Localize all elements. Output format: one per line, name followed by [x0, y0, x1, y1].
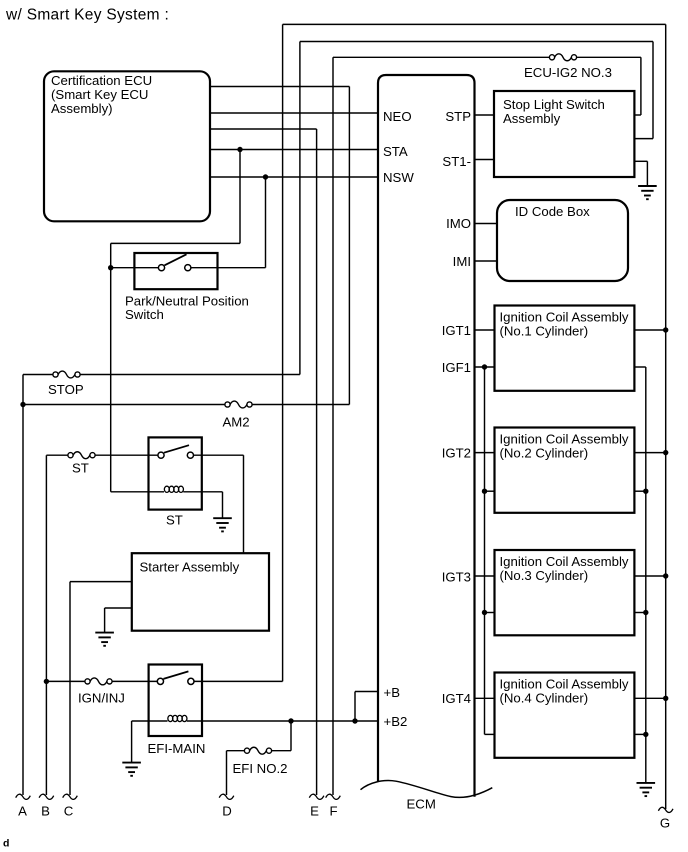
ignition coil assembly no.4 [495, 673, 635, 758]
connector C [63, 794, 78, 799]
wire IMO stub [475, 223, 498, 225]
svg-text:ST1-: ST1- [442, 154, 471, 169]
wire STOP riser to stop light switch feed [299, 42, 301, 375]
svg-text:Assembly: Assembly [503, 111, 561, 126]
connector E [309, 794, 324, 799]
wire ECU to NSW [210, 176, 378, 178]
ground stop light switch [634, 160, 647, 162]
svg-text:IGT3: IGT3 [442, 570, 471, 585]
ignition coil assembly no.2 [495, 428, 635, 513]
node coil2 ground rail [643, 489, 648, 494]
wire connector D riser with EFI NO.2 fuse [226, 751, 228, 795]
wire coil1 to +B rail [634, 329, 665, 331]
svg-text:Ignition Coil Assembly: Ignition Coil Assembly [500, 677, 629, 692]
ECM box with wavy bottom [378, 75, 475, 797]
svg-text:Ignition Coil Assembly: Ignition Coil Assembly [500, 432, 629, 447]
wire IGT2 stub [475, 452, 495, 454]
svg-text:EFI NO.2: EFI NO.2 [233, 761, 288, 776]
svg-text:IGT4: IGT4 [442, 691, 471, 706]
fuse STOP [53, 372, 58, 377]
svg-text:STA: STA [383, 144, 408, 159]
ignition coil assembly no.3 [495, 550, 635, 635]
svg-text:B: B [41, 803, 50, 818]
svg-text:Assembly): Assembly) [51, 101, 113, 116]
svg-text:C: C [64, 803, 74, 818]
node +B junction on +B2 line [352, 718, 357, 723]
connector F [326, 794, 341, 799]
node coil4 +B rail [663, 696, 668, 701]
relay ST [149, 437, 202, 509]
fuse EFI NO.2 [244, 748, 249, 753]
ground starter assembly [105, 607, 132, 609]
wire ST1- stub [475, 159, 495, 161]
ignition coil assembly no.1 [495, 306, 635, 391]
svg-text:Ignition Coil Assembly: Ignition Coil Assembly [500, 310, 629, 325]
wire connector C riser to starter [69, 582, 71, 795]
svg-text:ID Code Box: ID Code Box [515, 204, 590, 219]
stop light switch assembly box [494, 91, 634, 177]
svg-text:NEO: NEO [383, 109, 412, 124]
svg-text:F: F [329, 803, 337, 818]
svg-text:IMI: IMI [453, 254, 471, 269]
wire IGF rail to coil4 [485, 733, 495, 735]
node STA branch [237, 147, 242, 152]
connector A [16, 794, 31, 799]
svg-text:+B: +B [384, 685, 401, 700]
wire coil2 to +B rail [634, 452, 665, 454]
node A-AM2 junction [20, 402, 25, 407]
svg-text:(Smart Key ECU: (Smart Key ECU [51, 87, 148, 102]
svg-text:G: G [660, 816, 670, 831]
fuse AM2 [225, 402, 230, 407]
wire ECU to connector E riser [210, 128, 317, 130]
wire G rail down right side [665, 24, 667, 809]
svg-text:IMO: IMO [446, 216, 471, 231]
svg-text:d: d [3, 838, 9, 850]
node coil2 +B rail [663, 450, 668, 455]
svg-text:IGT2: IGT2 [442, 446, 471, 461]
svg-text:ECU-IG2 NO.3: ECU-IG2 NO.3 [524, 65, 612, 80]
svg-text:w/ Smart Key System :: w/ Smart Key System : [5, 7, 169, 24]
wire EFI-MAIN output riser to top rail [282, 24, 284, 681]
svg-text:(No.2 Cylinder): (No.2 Cylinder) [500, 446, 589, 461]
svg-text:(No.1 Cylinder): (No.1 Cylinder) [500, 324, 589, 339]
wire coil3 to +B rail [634, 575, 665, 577]
svg-text:IGF1: IGF1 [442, 360, 471, 375]
svg-text:STOP: STOP [48, 382, 84, 397]
node coil3 +B rail [663, 573, 668, 578]
svg-text:AM2: AM2 [223, 414, 250, 429]
svg-text:(No.3 Cylinder): (No.3 Cylinder) [500, 568, 589, 583]
ground rail for ignition coils [645, 367, 647, 783]
wire IMI stub [475, 260, 498, 262]
svg-text:ECM: ECM [407, 796, 436, 811]
svg-text:(No.4 Cylinder): (No.4 Cylinder) [500, 691, 589, 706]
ID code box [497, 200, 628, 281]
wire connector E riser lower part [316, 129, 318, 795]
ground ST relay [222, 492, 224, 518]
svg-text:A: A [18, 803, 27, 818]
relay EFI-MAIN [149, 665, 202, 737]
svg-text:ST: ST [166, 513, 183, 528]
wire IGT4 stub [475, 697, 495, 699]
wire ECU to STA [210, 149, 378, 151]
svg-text:Ignition Coil Assembly: Ignition Coil Assembly [500, 554, 629, 569]
connector B [39, 794, 54, 799]
svg-text:Stop Light Switch: Stop Light Switch [503, 97, 605, 112]
svg-text:ST: ST [72, 461, 89, 476]
certification ECU box [44, 71, 210, 221]
svg-text:IGT1: IGT1 [442, 323, 471, 338]
ground EFI-MAIN relay [131, 721, 133, 763]
wire +B bracket [355, 691, 378, 693]
svg-text:+B2: +B2 [384, 714, 408, 729]
wire STP stub [475, 114, 495, 116]
wire ECU to NEO [210, 112, 378, 114]
wire IGT1 stub [475, 329, 495, 331]
wire ECU pin1 to AM2 riser [210, 86, 349, 88]
park/neutral position switch [111, 267, 158, 269]
fuse ECU-IG2 NO.3 [549, 55, 554, 60]
connector G [658, 807, 673, 812]
wire coil3 to ground rail [634, 612, 645, 614]
wire connector B riser with ST fuse [45, 455, 47, 795]
wire coil1 to ground rail [634, 366, 645, 368]
svg-text:Certification ECU: Certification ECU [51, 73, 152, 88]
svg-text:Starter Assembly: Starter Assembly [140, 560, 240, 575]
node coil1 +B rail [663, 327, 668, 332]
node B-IGN/INJ junction [44, 679, 49, 684]
svg-text:NSW: NSW [383, 170, 414, 185]
node IGF rail coil2 [482, 489, 487, 494]
wire STA branch down [239, 150, 241, 244]
node EFI NO.2 to +B2 line [288, 718, 293, 723]
node IGF rail coil3 [482, 610, 487, 615]
wire coil4 to +B rail [634, 697, 665, 699]
wire coil2 to ground rail [634, 490, 645, 492]
fuse IGN/INJ [85, 679, 90, 684]
wire coil4 to ground rail [634, 733, 645, 735]
svg-text:D: D [222, 803, 232, 818]
svg-text:E: E [310, 803, 319, 818]
wire connector F riser to ECU-IG2 fuse [332, 57, 334, 795]
starter assembly box [132, 553, 269, 631]
svg-text:Switch: Switch [125, 307, 164, 322]
connector D [219, 794, 234, 799]
wire connector A with STOP fuse [22, 375, 24, 796]
svg-text:EFI-MAIN: EFI-MAIN [148, 741, 206, 756]
wire fuse to stop light switch pin [577, 56, 641, 58]
wire IGF1 rail [475, 366, 495, 368]
wire NSW branch to park/neutral switch [265, 177, 267, 268]
wire IGT3 stub [475, 575, 495, 577]
node NSW branch [263, 174, 268, 179]
node coil3 ground rail [643, 610, 648, 615]
svg-text:IGN/INJ: IGN/INJ [78, 690, 125, 705]
svg-text:STP: STP [445, 109, 471, 124]
node park/neutral left junction [108, 265, 113, 270]
wire AM2 line [23, 404, 225, 406]
fuse ST [68, 453, 73, 458]
node coil4 ground rail [643, 732, 648, 737]
